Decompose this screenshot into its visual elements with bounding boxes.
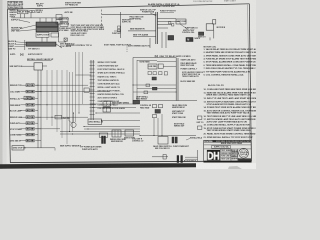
cross wires — [133, 84, 176, 86]
terminal tick 4 — [90, 72, 95, 74]
title row divider 1 — [204, 141, 252, 143]
row contact pair 10 — [26, 139, 30, 142]
comp box — [51, 33, 59, 37]
heater element G2 (vertical bars) — [172, 137, 174, 143]
dist box E1b — [103, 107, 110, 112]
wire comps — [146, 84, 150, 87]
right bus rails — [175, 58, 177, 101]
wire: drop 2 — [24, 14, 26, 18]
terminal t2 — [32, 10, 34, 12]
wire: vertical below — [41, 37, 43, 42]
row contact mark 5 — [31, 110, 33, 112]
row contact mark 4 — [31, 104, 33, 106]
junction dot — [46, 104, 47, 105]
box bottom D2 — [12, 146, 24, 150]
row wire 1 — [21, 84, 27, 86]
row wire out 10 — [35, 140, 41, 142]
lower comps — [153, 104, 157, 107]
terminal tick 14 — [90, 107, 95, 109]
row wire out 3 — [35, 97, 38, 99]
row wire out 1 — [35, 84, 38, 86]
wires label to bus — [15, 41, 26, 44]
junction dot — [90, 103, 91, 104]
field divider right — [231, 152, 238, 154]
wire down from C1 — [213, 30, 215, 38]
drawing border frame: bottom border — [10, 161, 251, 163]
long wire low 2 — [60, 133, 140, 135]
bus wire V4 — [61, 70, 63, 138]
wires out of D1 — [37, 70, 39, 148]
row contact mark b 10 — [27, 140, 29, 142]
dashed stub vertical — [126, 44, 128, 52]
junction dot — [69, 131, 70, 132]
sub-frame wire t1 — [157, 61, 176, 63]
title header dark band — [213, 140, 252, 142]
left scan margin strip — [0, 0, 3, 169]
terminal tick 1 — [90, 61, 95, 63]
terminal tick 9 — [90, 89, 95, 91]
wire to motor — [179, 22, 181, 25]
junction dot — [72, 133, 73, 134]
row wire 7 — [21, 122, 27, 124]
fields divider verticals — [220, 149, 222, 161]
terminal tick 11 — [90, 96, 95, 98]
scan noise overlay — [0, 0, 1, 1]
terminal tick 6 — [90, 79, 95, 81]
E heading symbol — [155, 55, 158, 57]
tick — [209, 37, 211, 40]
row contact mark 2 — [31, 91, 33, 93]
field divider — [221, 156, 231, 158]
long verticals center-left — [69, 72, 71, 132]
junction dot — [132, 84, 133, 85]
wire bottom diag — [54, 148, 56, 151]
row contact mark b 2 — [27, 91, 29, 93]
relay K1 contact block (hatched dark) — [36, 22, 58, 27]
junction dot — [139, 135, 140, 136]
junction dot — [95, 112, 96, 113]
row feeder 2 — [35, 91, 110, 93]
wire: long bottom horizontal — [140, 135, 196, 137]
row wire out 5 — [35, 109, 38, 111]
box right R1 — [60, 17, 68, 21]
terminal tick 2 — [90, 65, 95, 67]
drawing border frame: left border — [8, 9, 11, 162]
row contact mark b 7 — [27, 122, 29, 124]
field divider right — [231, 157, 238, 159]
row contact mark 1 — [31, 84, 33, 86]
title row 3 box — [212, 146, 231, 149]
contactor dark bars — [102, 136, 104, 144]
field divider — [221, 151, 231, 153]
field divider right — [231, 150, 238, 152]
terminal tick 15 — [90, 110, 95, 112]
terminal tick 3 — [90, 68, 95, 70]
control box E3 — [148, 64, 157, 69]
junction dot — [78, 112, 79, 113]
row contact pair 6 — [26, 116, 30, 119]
terminal tick 5 — [90, 75, 95, 77]
dist box E1 — [103, 101, 110, 106]
wire from box down — [58, 24, 60, 42]
flow switch box G1 — [158, 137, 168, 145]
junction box JB1 — [18, 10, 29, 14]
PE seal circle — [239, 148, 249, 158]
row wire 3 — [21, 97, 27, 99]
junction dot — [87, 128, 88, 129]
row contact mark 10 — [31, 140, 33, 142]
row contact pair 8 — [26, 127, 30, 130]
vertical feed at left of cable bus — [24, 40, 26, 50]
wire: drop 1 — [20, 14, 22, 18]
field divider right — [231, 154, 238, 156]
vertical stub — [197, 150, 199, 162]
junction dot — [153, 135, 154, 136]
title block outline — [204, 140, 252, 162]
row contact mark 9 — [31, 134, 33, 136]
terminal strip TB1 rails — [90, 60, 92, 120]
row wire out 9 — [35, 134, 38, 136]
row wire out 8 — [35, 128, 41, 130]
mid wire b — [84, 128, 140, 130]
junction dot — [40, 91, 41, 92]
row contact mark b 4 — [27, 104, 29, 106]
wires from E2 — [102, 120, 140, 122]
row contact mark 3 — [31, 98, 33, 100]
wire from D2 — [24, 147, 55, 149]
right border inner line — [248, 5, 250, 141]
wire stub — [133, 36, 156, 38]
row wire 8 — [21, 128, 27, 130]
wire horizontal — [59, 41, 67, 43]
disconnect switch box C1 — [206, 24, 213, 30]
bus wire V1 — [46, 70, 48, 120]
small device symbol — [64, 38, 67, 41]
row contact pair 9 — [26, 133, 30, 136]
row contact mark 6 — [31, 116, 33, 118]
cable bus taper wire — [56, 44, 62, 48]
sub-frame wire t2 — [163, 66, 176, 68]
terminal box E2 — [88, 119, 102, 124]
leader — [150, 13, 157, 16]
wire: long horizontal lower — [128, 30, 156, 32]
leader lines — [20, 25, 36, 29]
revision table (top-left margin) — [8, 1, 23, 8]
riser: double vertical conduit — [155, 12, 157, 44]
aux box C2 — [213, 20, 216, 24]
junction dot — [37, 85, 38, 86]
wire: bus horizontal — [12, 17, 61, 19]
starter box S1 — [176, 19, 186, 24]
valve symbol (bowtie) — [21, 53, 24, 55]
wire h1 — [92, 103, 136, 105]
sub-frame top — [133, 57, 177, 59]
row wire out 2 — [35, 91, 41, 93]
drawing border frame: top border — [8, 4, 250, 9]
row contact mark b 5 — [27, 110, 29, 112]
title row divider 2 — [204, 144, 252, 146]
leader diag — [180, 24, 188, 29]
terminal tick 8 — [90, 86, 95, 88]
bus wire V5 — [66, 70, 68, 144]
field divider right — [231, 155, 238, 157]
row contact pair 7 — [26, 122, 30, 125]
row wire out 4 — [35, 104, 41, 106]
comp pair on line — [118, 26, 121, 29]
title row divider 3 — [204, 148, 252, 150]
revision table divider — [14, 1, 16, 8]
dark bars bottom — [177, 156, 179, 163]
row contact mark b 3 — [27, 98, 29, 100]
bus wire V3 — [56, 70, 58, 132]
row feeder 4 — [35, 116, 88, 118]
small cluster below-left — [199, 32, 204, 35]
sub-frame inner wire — [137, 60, 157, 62]
leader — [186, 138, 190, 140]
dashed match line — [101, 10, 103, 31]
box E4 — [158, 64, 163, 68]
field divider — [221, 154, 231, 156]
row wire 9 — [21, 134, 27, 136]
row contact mark b 6 — [27, 116, 29, 118]
wire drop to pump — [73, 113, 75, 122]
verticals down — [153, 118, 155, 136]
wire into strip — [76, 74, 92, 76]
contactor outline — [99, 133, 108, 137]
junction dot — [73, 112, 74, 113]
wire cluster to boxes — [58, 23, 60, 25]
terminal tick 16 — [90, 114, 95, 116]
relay K2 contact block — [36, 27, 58, 31]
verticals descending — [149, 38, 151, 48]
wire h2 — [92, 107, 136, 109]
bus wire V2 — [51, 70, 53, 126]
dark box lower-left — [133, 100, 140, 104]
row wire 5 — [21, 109, 27, 111]
seal date bar — [238, 159, 250, 161]
tiny rect row — [148, 71, 151, 74]
extra comp row3 — [24, 96, 31, 100]
vertical match line 2 — [120, 12, 122, 38]
left margin schematic marks near notes — [198, 116, 202, 119]
box pair B0 — [56, 15, 62, 20]
row contact mark b 8 — [27, 128, 29, 130]
terminal tick 10 — [90, 93, 95, 95]
row feeder 5 — [35, 128, 60, 130]
bottom small cluster — [152, 156, 168, 158]
row feeder 3 — [35, 104, 96, 106]
row contact pair 5 — [26, 109, 30, 112]
mid wire a — [84, 126, 140, 128]
junction dot — [101, 120, 102, 121]
dark mark — [152, 77, 156, 80]
row wire out 6 — [35, 116, 41, 118]
wires right of bars — [185, 156, 198, 158]
row wire 2 — [21, 91, 27, 93]
wire to box — [21, 65, 34, 67]
wire: drop 3 — [30, 13, 32, 18]
control box D1 — [34, 63, 42, 70]
comp dark pair — [168, 36, 174, 41]
extra comp row mid — [55, 115, 62, 119]
title block bottom thick bar — [204, 161, 252, 163]
motor M1 (dark box) — [186, 38, 193, 42]
row contact pair 4 — [26, 103, 30, 106]
lower comp row — [36, 33, 49, 38]
row contact mark 7 — [31, 122, 33, 124]
DH logo black square — [207, 150, 220, 161]
pump leader label — [68, 120, 72, 124]
long wire low 1 — [60, 131, 140, 133]
row contact pair 2 — [26, 90, 30, 93]
row contact pair 1 — [26, 84, 30, 87]
junction dot — [51, 117, 52, 118]
paper background — [0, 0, 256, 169]
branch wires right — [157, 18, 176, 20]
row feeder 1 — [35, 84, 88, 86]
row wire 4 — [21, 104, 27, 106]
stub wire — [114, 30, 121, 32]
junction dot — [176, 91, 177, 92]
pump symbol P1 (circle) — [71, 122, 76, 127]
junction dot — [83, 126, 84, 127]
small comps — [169, 22, 171, 24]
shadow blob bottom right — [228, 166, 242, 169]
wire: vertical feeds into relay — [39, 18, 41, 22]
terminal t1 — [30, 10, 32, 12]
switch box F2 — [125, 130, 134, 136]
sub-frame left vertical — [132, 58, 134, 105]
row wire out 7 — [35, 122, 38, 124]
switch box F1 — [112, 130, 121, 137]
wire h3 — [96, 112, 140, 114]
bottom scan shadow band — [0, 163, 196, 169]
aux box at strip — [84, 88, 89, 92]
box right R2 — [60, 22, 68, 26]
terminal tick 12 — [90, 100, 95, 102]
row wire 6 — [21, 116, 27, 118]
row wire 10 — [21, 140, 27, 142]
row contact pair 3 — [26, 97, 30, 100]
terminal tick 7 — [90, 82, 95, 84]
wire: long horizontal into panel — [102, 13, 157, 15]
terminal tick 13 — [90, 103, 95, 105]
junction dot — [161, 135, 162, 136]
drawing border frame: right border — [249, 4, 251, 161]
row contact mark b 9 — [27, 134, 29, 136]
cable bus bar (hatched dark) — [26, 42, 56, 46]
row contact mark 8 — [31, 128, 33, 130]
long wire to right — [140, 100, 197, 102]
row contact mark b 1 — [27, 84, 29, 86]
